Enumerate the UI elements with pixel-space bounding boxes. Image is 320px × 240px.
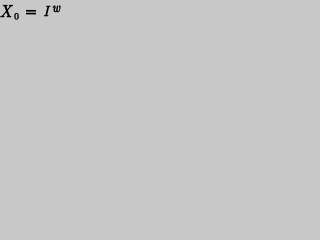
superscript w <box>53 6 60 12</box>
subscript 0 <box>15 13 19 19</box>
variable X <box>1 5 13 17</box>
equals sign top bar <box>26 10 36 12</box>
equals sign bottom bar <box>26 13 36 15</box>
variable I <box>44 6 51 16</box>
